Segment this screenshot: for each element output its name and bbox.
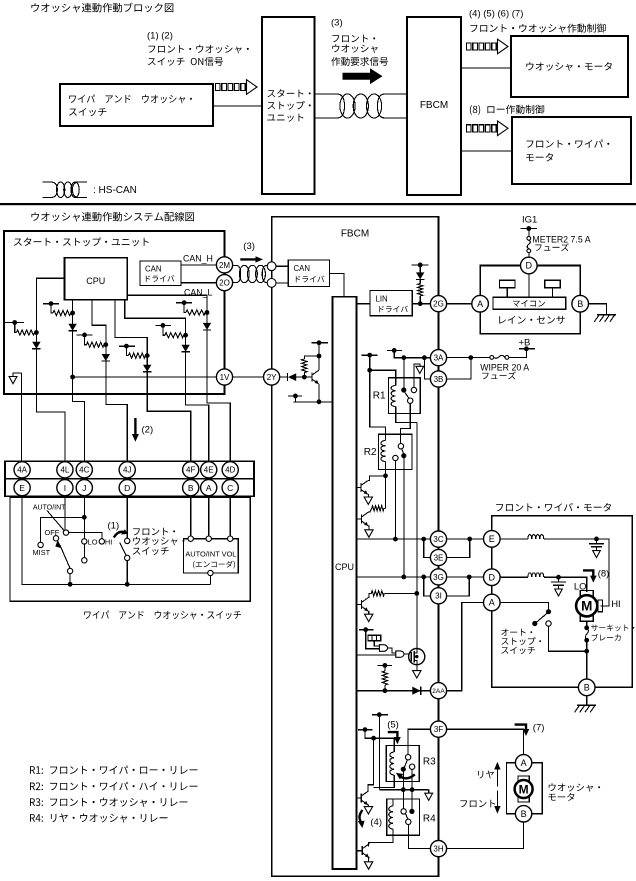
wire: 2G to rain sensor A: [447, 303, 472, 305]
svg-text:E: E: [19, 483, 25, 493]
resistor net P3: [76, 334, 92, 336]
connector E (wiper motor): [484, 531, 501, 548]
svg-text:3I: 3I: [435, 592, 442, 601]
circuit breaker: [585, 628, 588, 640]
svg-text:4E: 4E: [204, 466, 214, 475]
block: wiper/washer switch assembly: [10, 497, 250, 601]
label: フロント・ワイパ・モータ: [496, 503, 611, 511]
section divider: [0, 203, 636, 205]
svg-text:AUTO/INT VOL: AUTO/INT VOL: [185, 550, 236, 559]
relay R3 contact: [405, 755, 410, 760]
wire: R4 coil to Q2: [368, 835, 393, 846]
transistor Qc (auto-stop sense): [357, 603, 362, 605]
wire: D line with inductor: [500, 576, 528, 578]
pull-up: diode+resistor at LIN: [412, 264, 429, 266]
legend: HS-CAN twisted pair symbol: [43, 182, 87, 198]
arrow: front direction: [496, 791, 498, 808]
connector 4L: [57, 462, 73, 478]
transistor Q2 (R4 drive): [357, 850, 363, 852]
svg-text:(4): (4): [370, 817, 382, 828]
signal arrow: lo drive: [467, 125, 472, 132]
resistor net P2: [43, 303, 59, 305]
connector A (rain sensor): [472, 295, 489, 312]
power stub to logic: [359, 629, 374, 631]
sensor element 2: [545, 280, 560, 287]
wire: washer B to 3H: [447, 822, 524, 849]
svg-text:A: A: [477, 299, 483, 309]
svg-text:M: M: [581, 599, 592, 614]
capacitor filter on D line: [558, 577, 560, 582]
wire: 3B right jog: [447, 358, 471, 379]
label: スイッチ: [133, 547, 169, 555]
wire: R4 contact to 3H: [408, 825, 430, 849]
connector 2M: [216, 257, 232, 273]
relay R4 coil: [389, 806, 393, 829]
ic: CPU (FBCM): [333, 297, 357, 869]
wire: CAN_L to 2O: [181, 282, 217, 284]
svg-text:R3: R3: [423, 757, 436, 768]
power stub to R1/R2 coils: [362, 354, 378, 356]
svg-text:M: M: [519, 782, 529, 796]
wire: motor to circuit breaker: [586, 621, 588, 628]
wire: 3G to wiper motor D: [447, 576, 484, 578]
svg-text:R4: R4: [423, 814, 436, 825]
signal arrow: front washer switch ON: [216, 83, 221, 90]
wire: J column + MIST branch: [41, 496, 85, 542]
transistor Q1 (R3 drive): [357, 797, 362, 799]
label: ストップ・: [267, 101, 310, 110]
resistor net P6: [176, 302, 192, 304]
signal arrow (3): [240, 258, 256, 260]
label: リヤ: [478, 771, 494, 779]
wire: CPU pin E/4A with open arrow: [13, 373, 22, 461]
wire: R1 coil to drive net: [396, 413, 417, 422]
node: CAN_L entry: [267, 279, 276, 288]
twisted pair: unit to FBCM: [315, 94, 408, 118]
label: 作動要求信号: [331, 57, 388, 66]
svg-text:CAN: CAN: [294, 264, 310, 273]
relay R2 contact: [398, 444, 403, 449]
block: FBCM (top): [407, 17, 461, 195]
connector row box 1: [5, 461, 254, 478]
wire: CPU to 4L: [36, 278, 65, 461]
svg-text:4L: 4L: [60, 466, 69, 475]
svg-text:4F: 4F: [186, 466, 195, 475]
node: CAN_H entry: [267, 262, 276, 271]
contact OFF: [53, 536, 58, 541]
connector 4A: [14, 462, 30, 478]
twisted pair: 2M/2O to FBCM: [233, 265, 267, 282]
block: wiper and washer switch box: [60, 84, 213, 126]
svg-text:D: D: [489, 572, 496, 582]
resistor net P1: [5, 322, 24, 324]
label: スタート・ストップ・ユニット: [14, 237, 149, 246]
connector 3A: [430, 350, 446, 366]
wire: 3B left jog: [424, 358, 430, 379]
svg-text:CAN: CAN: [145, 265, 161, 274]
wire: fuse to 3A: [447, 356, 490, 358]
wire: 3E left jog: [424, 539, 431, 557]
contact MIST: [38, 542, 43, 547]
label: R4: リヤ・ウオッシャ・リレー: [30, 813, 168, 822]
relay R3 box: [386, 746, 419, 782]
svg-text:4J: 4J: [123, 466, 131, 475]
svg-text:(7): (7): [533, 723, 545, 734]
signal arrow (7): [515, 725, 526, 730]
svg-text:A: A: [521, 758, 527, 768]
transistor Qa (R2 drive): [357, 487, 361, 489]
logic gate 2: [388, 648, 396, 653]
connector 1V: [216, 369, 232, 385]
wire: 3E right jog: [447, 539, 470, 558]
wire: to HI contact: [69, 533, 102, 539]
signal arrow (8): [583, 570, 593, 576]
wire: rain sensor B to ground: [589, 304, 607, 315]
resistor net P4: [119, 345, 135, 347]
wire: FBCM to washer motor: [461, 67, 511, 69]
contact HI: [99, 539, 104, 544]
connector pin C: [222, 480, 238, 496]
label: ウオッシャ: [332, 44, 377, 53]
svg-text:CAN_H: CAN_H: [183, 254, 213, 264]
wire: R1 drive net down to MOSFET: [416, 422, 418, 648]
signal arrow (5): [388, 732, 398, 738]
contact stub below LO: [83, 544, 85, 558]
svg-text:D: D: [124, 483, 130, 493]
block: start-stop unit: [4, 231, 225, 394]
wire: I column: [64, 496, 66, 530]
wire: LIN driver to 2G: [412, 303, 430, 305]
label: ドライバ: [146, 275, 175, 282]
switch: main wiper lever with arrow: [60, 545, 70, 568]
svg-text:CPU: CPU: [335, 562, 354, 572]
svg-text:A: A: [206, 483, 212, 493]
diode D-4J: [102, 354, 110, 361]
ground (wiper motor): [577, 704, 596, 706]
svg-text:A: A: [489, 598, 495, 608]
svg-text:I: I: [64, 483, 66, 493]
connector pin E: [14, 480, 30, 496]
relay R2 coil: [381, 441, 386, 462]
svg-text:: HS-CAN: : HS-CAN: [93, 185, 137, 196]
connector row box 2: [5, 479, 254, 497]
connector 3C: [430, 531, 446, 547]
label: レイン・センサ: [499, 316, 565, 324]
encoder bottom pin to bus: [208, 570, 213, 575]
label: R3: フロント・ウオッシャ・リレー: [30, 798, 187, 807]
transistor Qb: [357, 518, 362, 520]
pull resistor at 2AA line: [378, 664, 392, 666]
connector D (rain sensor): [521, 257, 538, 274]
relay R1 box: [389, 378, 421, 414]
relay R1 coil: [391, 386, 396, 407]
svg-text:(2): (2): [142, 425, 154, 436]
resistor net P5: [155, 324, 171, 326]
label: ストップ・: [501, 637, 541, 645]
logic gate 1: [379, 645, 387, 652]
label: R1: フロント・ワイパ・ロー・リレー: [30, 765, 197, 774]
diode D-4F: [143, 365, 151, 372]
power stub 2 (R3 coil): [358, 729, 372, 731]
capacitor filter on E line: [596, 539, 598, 544]
svg-text:MIST: MIST: [33, 548, 51, 557]
svg-text:B: B: [188, 483, 194, 493]
power stub to 3A line: [387, 349, 402, 351]
wire: R2 to 3G line: [403, 456, 405, 577]
connector pin B: [183, 480, 199, 496]
wire: emitter line to CPU: [294, 401, 333, 403]
svg-text:(1) (2): (1) (2): [147, 31, 173, 42]
switch: front washer switch: [126, 496, 128, 538]
ic: AUTO/INT VOL encoder box: [184, 539, 239, 573]
signal arrow: washer request (solid): [343, 68, 383, 84]
svg-text:4C: 4C: [79, 466, 89, 475]
fuse WIPER 20A: [505, 356, 509, 360]
label: ワイパ アンド ウオッシャ・スイッチ: [84, 611, 241, 620]
label: フロント・ウオッシャ・: [148, 45, 248, 54]
wire: 3I left jog: [424, 577, 431, 596]
connector A (washer motor): [515, 755, 531, 771]
svg-text:4D: 4D: [225, 466, 235, 475]
wire: 1V to 2Y: [233, 376, 264, 378]
svg-text:WIPER 20 A: WIPER 20 A: [480, 363, 529, 373]
wire: R2 to 3C line: [394, 461, 396, 539]
wire: to Q1 collector: [368, 738, 374, 792]
connector pin D: [119, 480, 135, 496]
wire: 1V line: [73, 376, 217, 378]
connector 4F: [183, 462, 199, 478]
svg-text:3H: 3H: [433, 844, 443, 853]
wire: CPU to 4D: [128, 295, 230, 461]
mosfet Q (washer drive): [409, 649, 425, 665]
signal arrow (4) curved: [360, 810, 363, 823]
label: ブレーカ: [592, 634, 621, 641]
svg-text:(3): (3): [331, 18, 343, 29]
block: rain sensor: [480, 266, 580, 334]
svg-text:3A: 3A: [434, 354, 444, 363]
svg-text:FBCM: FBCM: [341, 229, 369, 240]
svg-text:CAN_L: CAN_L: [184, 288, 212, 298]
svg-text:OFF: OFF: [45, 528, 60, 537]
label: モータ: [548, 793, 574, 801]
connector 2O: [216, 275, 232, 291]
label: ウオッシャ・: [549, 783, 600, 791]
label: ウオッシャ連動作動ブロック図: [31, 3, 173, 13]
svg-text:B: B: [584, 683, 590, 693]
wire: FBCM to wiper motor: [461, 150, 512, 152]
wire: 3F to washer motor A: [447, 729, 524, 754]
svg-text:3C: 3C: [433, 535, 443, 544]
ic: microcomputer: [493, 297, 566, 309]
svg-text:LO: LO: [88, 538, 98, 547]
diode at 2Y: [280, 376, 288, 378]
resistor to base pull-up: [303, 373, 305, 378]
diode D-4L: [32, 342, 40, 349]
connector pin I: [57, 480, 73, 496]
connector 3F: [430, 721, 446, 737]
wire: wiper switch to start-stop unit: [213, 105, 262, 107]
wire: 3G line: [357, 576, 431, 578]
svg-text:R2: R2: [364, 447, 377, 458]
connector 4D: [222, 462, 238, 478]
relay R3 action arrow: [401, 774, 415, 778]
wire: 2AA to wiper motor A: [447, 603, 484, 691]
wire: E line with inductor: [500, 538, 528, 540]
label: オート・: [501, 629, 532, 636]
switch: AUTO/INT lever: [47, 511, 64, 531]
wire: CPU to 4F: [115, 300, 191, 462]
svg-text:2M: 2M: [219, 261, 230, 270]
label: スイッチ ON信号: [148, 57, 223, 66]
svg-text:HI: HI: [611, 599, 621, 610]
label: ユニット: [267, 114, 303, 122]
svg-text:B: B: [521, 809, 527, 819]
wire: CPU to gate 2: [357, 654, 396, 656]
label: ウオッシャ連動作動システム配線図: [31, 212, 194, 222]
label: ドライバ: [379, 306, 408, 313]
svg-text:CPU: CPU: [86, 276, 105, 286]
label: R2: フロント・ワイパ・ハイ・リレー: [30, 782, 197, 791]
relay R4 box: [387, 799, 420, 835]
label: (エンコーダ): [193, 561, 235, 569]
diode to 2AA: [412, 687, 420, 695]
svg-text:LIN: LIN: [376, 295, 388, 304]
label: フロント: [460, 800, 495, 808]
connector 3B: [430, 371, 446, 387]
svg-text:FBCM: FBCM: [420, 100, 448, 111]
connector D (wiper motor): [484, 569, 501, 586]
label: ウオッシャ・: [133, 537, 184, 545]
connector pin A: [201, 480, 217, 496]
wires: CAN nodes to driver: [276, 265, 288, 267]
wire: E column to common bus: [22, 496, 210, 585]
block: washer motor: [507, 763, 543, 814]
power stub 2Y: [311, 342, 328, 344]
wire: CAN_H to 2M: [181, 264, 217, 266]
label: ワイパ アンド ウオッシャ・: [69, 95, 192, 104]
svg-text:J: J: [82, 483, 86, 493]
svg-text:AUTO/INT: AUTO/INT: [33, 505, 66, 512]
diode D-4C: [68, 324, 76, 331]
svg-text:4A: 4A: [17, 466, 27, 475]
wire: 3I right jog: [447, 577, 470, 596]
signal arrow: washer drive: [467, 43, 472, 50]
label: サーキット・: [591, 625, 634, 632]
connector 2G: [430, 296, 446, 312]
contact: lever pivot: [67, 568, 72, 573]
svg-text:(4) (5) (6) (7): (4) (5) (6) (7): [469, 8, 523, 19]
connector 3H: [430, 841, 446, 857]
svg-text:E: E: [489, 534, 495, 544]
power stub 1 (R3/R4 contacts): [372, 714, 388, 716]
label: スイッチ: [501, 647, 535, 655]
label: フューズ: [535, 243, 569, 251]
label: ウオッシャ・モータ: [526, 62, 612, 71]
wire: D to microcomputer: [528, 274, 530, 297]
svg-text:B: B: [577, 299, 583, 309]
relay R2 box: [378, 434, 412, 469]
wire: CPU to 4J: [92, 300, 127, 462]
block: front wiper motor: [492, 516, 632, 688]
wire: 3C to wiper motor E: [447, 538, 484, 540]
label: フューズ: [482, 372, 516, 380]
connector 3I: [430, 588, 446, 604]
wire: R1 moving contact to R2: [401, 413, 411, 443]
svg-text:(8): (8): [598, 569, 610, 580]
svg-text:2AA: 2AA: [432, 688, 445, 695]
svg-text:2G: 2G: [433, 300, 444, 309]
svg-text:(3): (3): [243, 241, 255, 252]
connector 3E: [430, 549, 446, 565]
wire: contact rail under R3: [379, 789, 428, 791]
switch: auto-stop: [500, 603, 548, 610]
sensor element 1: [500, 280, 515, 287]
wire: gate 2 to MOSFET gate: [404, 653, 408, 655]
mosfet source to ground: [416, 665, 418, 671]
svg-text:D: D: [526, 261, 533, 271]
svg-text:C: C: [227, 483, 233, 493]
wire: R3 coil bottom to drive: [374, 782, 395, 788]
svg-text:2Y: 2Y: [267, 373, 277, 382]
label: (8) ロー作動制御: [470, 105, 544, 115]
wire: CPU to LIN driver: [357, 303, 371, 305]
block: washer motor (top): [511, 36, 628, 97]
svg-text:3G: 3G: [433, 573, 444, 582]
transistor Q2y: [312, 370, 319, 384]
svg-text:1V: 1V: [220, 373, 230, 382]
svg-text:(1): (1): [108, 521, 120, 532]
ic: CAN driver (unit): [140, 261, 181, 286]
wire: 2AA line: [357, 690, 431, 692]
label: スタート・: [267, 89, 310, 97]
svg-text:IG1: IG1: [522, 215, 537, 226]
label: マイコン: [513, 300, 545, 307]
connector B (wiper motor): [578, 679, 595, 696]
block: start-stop unit (top): [262, 17, 315, 194]
connector A (wiper motor): [484, 594, 501, 611]
label: モータ: [526, 153, 553, 161]
relay R4 contact: [401, 809, 406, 814]
connector 4C: [76, 462, 92, 478]
power stub at emitter line: [288, 395, 302, 397]
wire: 3C line: [357, 538, 431, 540]
label: フロント・ワイパ・: [526, 140, 609, 148]
block: FBCM: [272, 217, 439, 877]
wire: CPU to 4E: [125, 300, 209, 462]
motor M (washer): [518, 776, 529, 782]
block: front wiper motor (top): [512, 117, 631, 184]
wire: B to ground: [586, 696, 588, 706]
signal arrow (2): [134, 418, 136, 435]
wires: B/A/C columns to encoder: [190, 496, 192, 536]
svg-text:METER2 7.5 A: METER2 7.5 A: [532, 235, 590, 245]
connector pin J: [76, 480, 92, 496]
ic: LIN driver: [370, 290, 412, 315]
svg-text:+B: +B: [519, 338, 531, 349]
relay R3 coil: [390, 752, 394, 775]
label: フロント・ウオッシャ作動制御: [470, 24, 605, 33]
wire: CPU to 4C: [73, 300, 85, 462]
diode D-4E: [181, 345, 189, 352]
label: フロント・: [133, 528, 175, 536]
label: ドライバ: [296, 276, 325, 283]
connector 2AA: [430, 683, 446, 699]
relay R1 contact: [403, 358, 405, 390]
contact LO: [82, 539, 87, 544]
fuse METER2 7.5A: [527, 236, 531, 240]
connector 4E: [201, 462, 217, 478]
connector B (rain sensor): [572, 295, 589, 312]
